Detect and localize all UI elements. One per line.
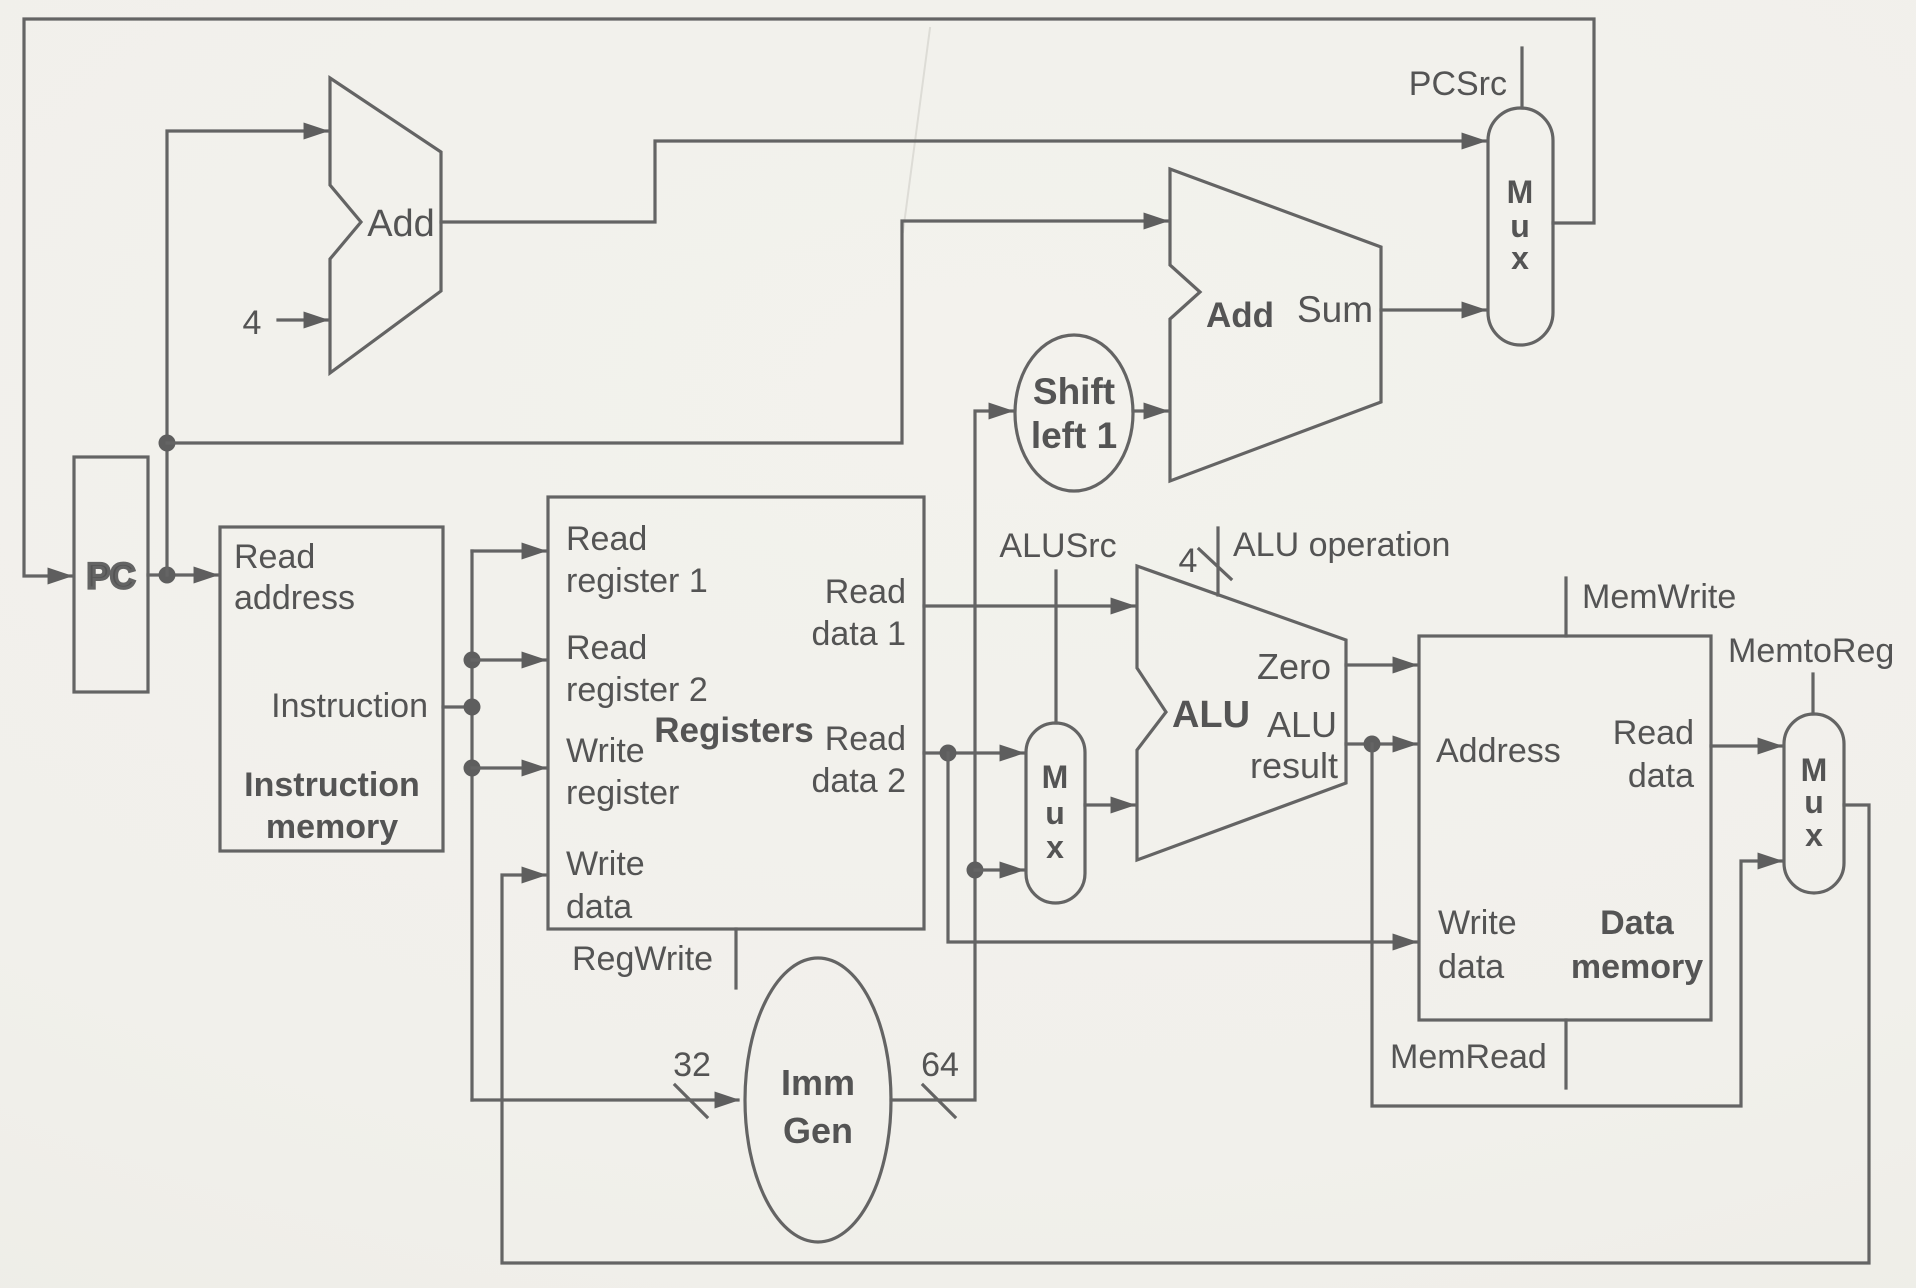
bus slash 64-bit xyxy=(923,1085,955,1117)
wire: instruction to Imm Gen xyxy=(472,1098,738,1101)
registers block xyxy=(548,497,924,929)
svg-text:RegWrite: RegWrite xyxy=(572,940,713,978)
junction: immediate to mux branch xyxy=(967,862,984,879)
svg-text:u: u xyxy=(1510,208,1530,244)
svg-text:data 2: data 2 xyxy=(811,762,906,800)
svg-text:register 2: register 2 xyxy=(566,671,708,709)
svg-text:Write: Write xyxy=(566,845,645,883)
ALU operation slash xyxy=(1199,549,1231,579)
svg-text:Read: Read xyxy=(825,720,906,758)
wire: ALU result to MemtoReg mux input 1 xyxy=(1372,744,1781,1106)
svg-text:M: M xyxy=(1801,752,1828,788)
svg-text:ALUSrc: ALUSrc xyxy=(999,527,1116,565)
svg-text:Address: Address xyxy=(1436,732,1561,770)
wire: read data 2 to ALUSrc mux input 0 xyxy=(924,751,1023,754)
svg-text:Registers: Registers xyxy=(654,711,814,750)
shift left 1 ellipse xyxy=(1015,335,1133,491)
svg-text:register: register xyxy=(566,774,679,812)
svg-text:Read: Read xyxy=(566,629,647,667)
wire: instruction to write register xyxy=(472,766,545,769)
svg-text:Gen: Gen xyxy=(783,1110,853,1151)
svg-text:M: M xyxy=(1042,759,1069,795)
svg-text:x: x xyxy=(1805,817,1823,853)
svg-text:register 1: register 1 xyxy=(566,562,708,600)
scan crease mark xyxy=(903,28,930,232)
svg-text:Instruction: Instruction xyxy=(271,687,428,725)
ALUSrc mux xyxy=(1026,723,1085,903)
svg-text:Data: Data xyxy=(1600,904,1675,942)
adder Add (PC+4) xyxy=(330,78,441,373)
ALU operation tick xyxy=(1216,528,1219,595)
svg-text:data: data xyxy=(566,888,632,926)
svg-text:Sum: Sum xyxy=(1297,289,1373,330)
svg-text:4: 4 xyxy=(1179,542,1198,580)
svg-text:Add: Add xyxy=(367,203,435,245)
svg-text:MemRead: MemRead xyxy=(1390,1038,1547,1076)
svg-text:ALU: ALU xyxy=(1267,704,1337,745)
wire: ALU result to data memory address xyxy=(1346,742,1416,745)
svg-text:x: x xyxy=(1511,240,1529,276)
svg-text:PCSrc: PCSrc xyxy=(1409,65,1507,103)
svg-text:ALU: ALU xyxy=(1172,694,1250,736)
svg-text:ALU operation: ALU operation xyxy=(1233,526,1450,564)
wire: immediate to ALUSrc mux input 1 xyxy=(975,868,1023,871)
wire: instruction output xyxy=(443,705,472,708)
junction: read register 2 branch xyxy=(464,652,481,669)
wire: Zero output to data memory xyxy=(1346,663,1416,666)
wire: constant 4 into Add xyxy=(278,318,327,321)
svg-text:PC: PC xyxy=(87,557,136,596)
MemRead tick xyxy=(1564,1020,1567,1088)
wire: MemtoReg mux output back to registers write data xyxy=(502,805,1869,1263)
wire: instruction to read register 2 xyxy=(472,658,545,661)
junction: ALU result branch xyxy=(1364,736,1381,753)
svg-text:Read: Read xyxy=(566,520,647,558)
junction: instruction node xyxy=(464,699,481,716)
wire: PC to instruction memory read address xyxy=(148,573,217,576)
wire: Sum output to PCSrc mux input 1 xyxy=(1381,308,1485,311)
svg-text:Read: Read xyxy=(234,538,315,576)
instruction memory xyxy=(220,527,443,851)
svg-text:Read: Read xyxy=(1613,714,1694,752)
svg-text:Read: Read xyxy=(825,573,906,611)
svg-text:memory: memory xyxy=(266,808,398,846)
svg-text:Shift: Shift xyxy=(1033,371,1115,412)
svg-text:Instruction: Instruction xyxy=(244,766,420,804)
junction: read data 2 branch xyxy=(940,745,957,762)
junction: write register branch xyxy=(464,760,481,777)
MemtoReg tick xyxy=(1811,674,1814,714)
RegWrite tick xyxy=(734,929,737,988)
svg-text:Imm: Imm xyxy=(781,1062,855,1103)
svg-text:M: M xyxy=(1507,174,1534,210)
wire: Imm Gen output to shift left 1 and ALUSrc mux xyxy=(891,411,1012,1100)
wire: instruction to read register 1 xyxy=(472,549,545,552)
svg-text:32: 32 xyxy=(673,1046,711,1084)
svg-text:64: 64 xyxy=(921,1046,959,1084)
PCSrc mux xyxy=(1488,108,1553,345)
svg-text:u: u xyxy=(1804,784,1824,820)
wire: read data 1 to ALU xyxy=(924,604,1134,607)
svg-text:Add: Add xyxy=(1206,296,1274,335)
svg-text:u: u xyxy=(1045,795,1065,831)
svg-text:MemtoReg: MemtoReg xyxy=(1728,632,1894,670)
svg-text:x: x xyxy=(1046,829,1064,865)
MemWrite tick xyxy=(1564,578,1567,636)
svg-text:Write: Write xyxy=(566,732,645,770)
bus slash 32-bit xyxy=(675,1085,707,1117)
wire: PCSrc mux output loop back to PC input xyxy=(24,19,1594,576)
svg-text:data 1: data 1 xyxy=(811,615,906,653)
wire: data memory read data to MemtoReg mux input 0 xyxy=(1711,744,1781,747)
svg-text:Write: Write xyxy=(1438,904,1517,942)
wire: PC value to branch adder top input xyxy=(167,221,1167,443)
wire: shift left 1 output to branch adder xyxy=(1133,409,1167,412)
wire: read data 2 to data memory write data xyxy=(948,753,1416,942)
Imm Gen ellipse xyxy=(745,958,891,1242)
junction: PC branch to branch adder xyxy=(159,435,176,452)
svg-text:Zero: Zero xyxy=(1257,646,1331,687)
ALU xyxy=(1137,566,1346,860)
wire: PC value up to Add (PC+4) input xyxy=(167,131,327,575)
PC register xyxy=(74,457,148,692)
svg-text:result: result xyxy=(1250,745,1338,786)
svg-text:4: 4 xyxy=(243,304,262,342)
svg-text:data: data xyxy=(1628,757,1694,795)
svg-text:left 1: left 1 xyxy=(1031,415,1117,456)
PCSrc tick xyxy=(1520,48,1523,108)
wire: Add output to PCSrc mux input 0 xyxy=(441,141,1485,222)
data memory xyxy=(1419,636,1711,1020)
wire: ALUSrc mux output to ALU xyxy=(1085,803,1134,806)
MemtoReg mux xyxy=(1784,714,1844,893)
svg-text:data: data xyxy=(1438,948,1504,986)
ALUSrc tick xyxy=(1054,571,1057,723)
svg-text:MemWrite: MemWrite xyxy=(1582,578,1736,616)
wire: instruction fanout vertical xyxy=(470,551,473,1100)
svg-text:memory: memory xyxy=(1571,948,1703,986)
adder Add (branch target, Sum) xyxy=(1170,169,1381,481)
junction: PC output xyxy=(159,567,176,584)
svg-text:address: address xyxy=(234,579,355,617)
